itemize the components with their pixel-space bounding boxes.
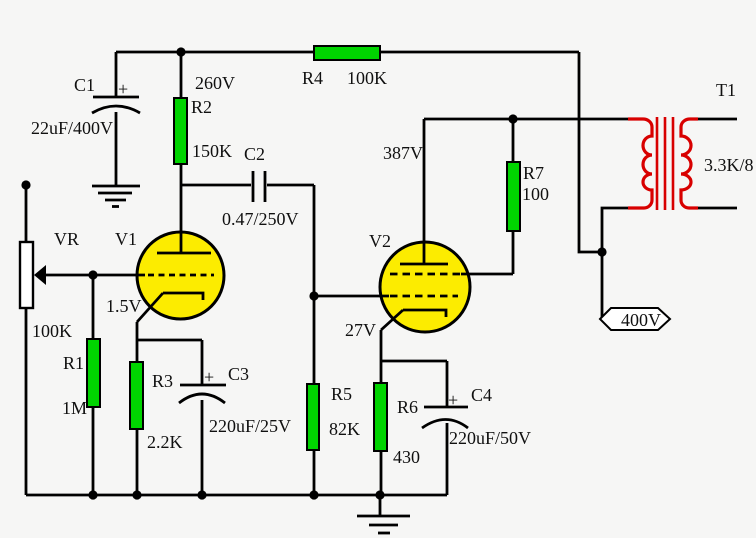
V2 screen grid (dashed) <box>390 273 462 276</box>
svg-text:VR: VR <box>54 229 79 249</box>
svg-text:+: + <box>448 390 458 410</box>
wire V2 cathode down to R6 <box>380 330 383 495</box>
svg-text:V1: V1 <box>115 229 137 249</box>
junction rail R5 <box>309 490 318 499</box>
resistor R3 <box>130 362 143 429</box>
V1 plate <box>157 252 211 255</box>
svg-text:3.3K/8: 3.3K/8 <box>704 155 754 175</box>
resistor R7 <box>507 162 520 231</box>
ground (C1) <box>92 186 140 207</box>
wire R2 top lead <box>180 52 183 98</box>
wire V2 cathode diagonal <box>381 310 403 330</box>
transformer T1 core <box>657 117 673 210</box>
svg-text:100K: 100K <box>32 321 72 341</box>
svg-text:1.5V: 1.5V <box>106 296 142 316</box>
junction V2 grid node <box>309 291 318 300</box>
svg-text:R4: R4 <box>302 68 323 88</box>
svg-text:R1: R1 <box>63 353 84 373</box>
svg-text:V2: V2 <box>369 231 391 251</box>
wire B+ riser <box>579 52 602 252</box>
svg-text:220uF/50V: 220uF/50V <box>449 428 531 448</box>
resistor R5 <box>307 384 319 450</box>
wire C4 top lead <box>446 361 449 407</box>
svg-text:27V: 27V <box>345 320 376 340</box>
wire to 400V flag <box>601 252 604 318</box>
wire C3 bottom lead <box>201 400 204 495</box>
wire top rail <box>116 51 579 54</box>
resistor R1 <box>87 339 100 407</box>
svg-text:220uF/25V: 220uF/25V <box>209 416 291 436</box>
V1 grid (dashed) <box>148 274 214 277</box>
svg-text:R3: R3 <box>152 371 173 391</box>
transformer T1 secondary winding <box>681 119 698 208</box>
wire anode to transformer primary top <box>424 118 629 121</box>
svg-text:260V: 260V <box>195 73 235 93</box>
tube V2 <box>380 242 470 332</box>
junction rail R3 <box>132 490 141 499</box>
svg-text:387V: 387V <box>383 143 423 163</box>
V1 cathode <box>163 293 203 300</box>
svg-text:R7: R7 <box>523 163 544 183</box>
wire R6 to C4 branch <box>381 360 447 363</box>
resistor R4 <box>314 46 380 60</box>
wire V1 cathode diagonal <box>137 293 163 322</box>
wire C1 top lead <box>115 52 118 97</box>
potentiometer VR body <box>20 242 33 308</box>
wire VR wiper to V1 grid <box>36 274 145 277</box>
svg-text:R5: R5 <box>331 384 352 404</box>
svg-text:1M: 1M <box>62 398 87 418</box>
input terminal dot <box>21 180 30 189</box>
svg-text:82K: 82K <box>329 419 360 439</box>
wire V2 grid lead <box>314 295 389 298</box>
wire C2 left <box>181 184 251 187</box>
capacitor C1 <box>92 79 140 113</box>
svg-text:R2: R2 <box>191 97 212 117</box>
svg-text:150K: 150K <box>192 141 232 161</box>
ground (main) <box>357 495 410 533</box>
junction B+ node <box>176 47 185 56</box>
svg-text:+: + <box>204 367 214 387</box>
svg-text:T1: T1 <box>716 80 736 100</box>
svg-text:100: 100 <box>522 184 549 204</box>
resistor R2 <box>174 98 187 164</box>
capacitor C4 <box>422 390 468 428</box>
svg-text:100K: 100K <box>347 68 387 88</box>
svg-text:430: 430 <box>393 447 420 467</box>
wire VR bottom to rail <box>25 309 28 495</box>
wire bottom ground rail <box>26 494 447 497</box>
junction R7 top node <box>508 114 517 123</box>
junction V1 grid node <box>88 270 97 279</box>
V2 control grid (dashed) <box>390 295 458 298</box>
wire R7 top lead <box>512 119 515 162</box>
wire R2 to V1 anode <box>180 164 183 253</box>
svg-text:+: + <box>118 79 128 99</box>
wire C1 ground lead <box>115 112 118 186</box>
svg-text:C3: C3 <box>228 364 249 384</box>
wire R7 bottom lead <box>512 231 515 274</box>
wire transformer primary bottom <box>602 208 629 252</box>
wire C2 to V2 grid and R5 <box>313 185 316 495</box>
junction rail R1 <box>88 490 97 499</box>
junction rail C3 <box>197 490 206 499</box>
wire V2 anode riser <box>423 119 426 264</box>
svg-text:2.2K: 2.2K <box>147 432 183 452</box>
junction 400V node <box>597 247 606 256</box>
wire input to VR top <box>25 185 28 243</box>
V2 cathode <box>403 310 446 317</box>
wire secondary top <box>697 118 737 121</box>
svg-text:C1: C1 <box>74 75 95 95</box>
svg-text:C4: C4 <box>471 385 492 405</box>
capacitor C3 <box>179 367 226 403</box>
wire C3 top lead <box>201 340 204 385</box>
svg-text:22uF/400V: 22uF/400V <box>31 118 113 138</box>
resistor R6 <box>374 383 387 451</box>
potentiometer VR wiper arrow <box>34 265 46 285</box>
svg-text:R6: R6 <box>397 397 418 417</box>
capacitor C2 <box>253 171 265 202</box>
transformer T1 primary winding <box>628 119 652 208</box>
tube V1 <box>137 232 224 319</box>
junction rail R6 <box>375 490 384 499</box>
wire C2 right <box>267 184 314 187</box>
svg-text:0.47/250V: 0.47/250V <box>222 209 299 229</box>
wire R3 to C3 branch <box>137 339 202 342</box>
wire V1 cathode down to R3 <box>136 322 139 495</box>
node 400V flag <box>600 308 670 330</box>
wire R7 to V2 screen grid <box>461 273 513 276</box>
svg-text:400V: 400V <box>621 310 661 330</box>
wire R1 branch <box>92 275 95 495</box>
wire C4 bottom lead <box>446 423 449 495</box>
wire secondary bottom <box>697 207 737 210</box>
V2 plate <box>400 263 448 266</box>
svg-text:C2: C2 <box>244 144 265 164</box>
